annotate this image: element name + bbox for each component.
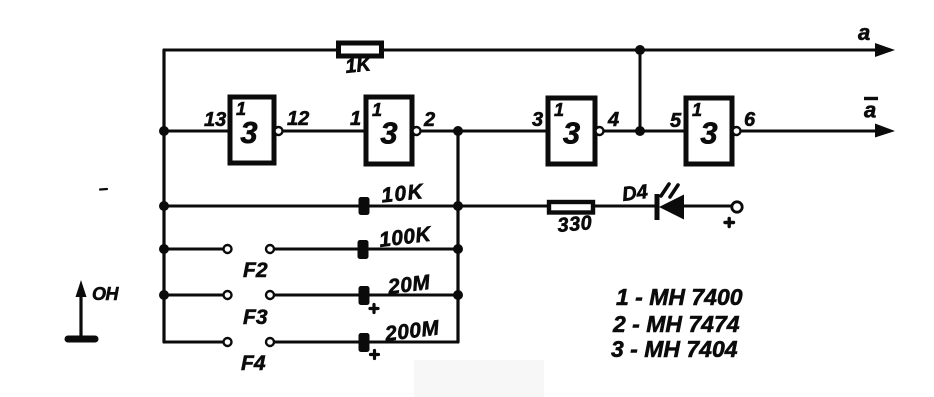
wire: left vertical bus bbox=[162, 50, 165, 342]
switch F4 bbox=[224, 338, 275, 375]
wire: vertical link from top line to gate chain bbox=[639, 50, 642, 131]
node: right bus / row 2 bbox=[453, 244, 463, 254]
svg-text:2: 2 bbox=[423, 109, 435, 131]
svg-text:5: 5 bbox=[670, 110, 682, 132]
svg-text:OH: OH bbox=[92, 284, 120, 304]
LED D4 bbox=[621, 181, 684, 220]
svg-text:F4: F4 bbox=[241, 352, 266, 375]
resistor 200M bbox=[359, 316, 441, 358]
switch F3 bbox=[224, 291, 275, 329]
node: left bus / row 1 bbox=[159, 201, 169, 211]
svg-text:1K: 1K bbox=[344, 53, 373, 78]
svg-text:3: 3 bbox=[700, 116, 717, 151]
node: left bus / row 2 bbox=[159, 244, 169, 254]
svg-text:12: 12 bbox=[287, 108, 309, 130]
inverter gate U3 (type 3, pins 3/4) bbox=[548, 98, 604, 164]
svg-text:1: 1 bbox=[350, 108, 361, 130]
svg-text:6: 6 bbox=[744, 109, 756, 131]
svg-text:4: 4 bbox=[607, 109, 619, 131]
inverter gate U1 (type 3, pins 13/12) bbox=[230, 97, 283, 163]
svg-text:2 - MH 7474: 2 - MH 7474 bbox=[612, 311, 740, 337]
node: right bus / row 1 bbox=[453, 201, 463, 211]
svg-text:330: 330 bbox=[557, 212, 594, 237]
node: junction right bus / gate chain bbox=[453, 126, 463, 136]
wire: main gate-chain line (net between inverters) bbox=[164, 130, 877, 133]
svg-text:3: 3 bbox=[380, 116, 397, 151]
wire: row 1 (10K row) bbox=[164, 205, 732, 208]
svg-text:3 - MH 7404: 3 - MH 7404 bbox=[611, 336, 738, 362]
node: right bus / row 3 bbox=[453, 290, 463, 300]
wire: right vertical bus bbox=[456, 131, 459, 342]
node: junction left bus / gate input bbox=[159, 126, 169, 136]
resistor R 330 bbox=[549, 202, 593, 237]
svg-text:3: 3 bbox=[240, 115, 257, 150]
wire: row 4 (200M row) bbox=[164, 341, 458, 344]
svg-text:3: 3 bbox=[532, 109, 543, 131]
terminal: + supply bbox=[725, 202, 742, 227]
arrow: output Q bbox=[875, 43, 895, 57]
net label Q-bar bbox=[864, 98, 878, 123]
resistor 10K bbox=[359, 180, 426, 215]
wire: top feedback line (net Q) bbox=[164, 49, 877, 52]
reference symbol OH (level marker) bbox=[68, 280, 120, 339]
resistor 100K bbox=[358, 223, 434, 259]
svg-text:10K: 10K bbox=[380, 180, 426, 207]
arrow: output Q-bar bbox=[875, 124, 895, 138]
svg-text:a: a bbox=[864, 98, 876, 123]
svg-text:a: a bbox=[858, 20, 870, 45]
resistor 20M bbox=[359, 271, 432, 313]
svg-text:1 - MH 7400: 1 - MH 7400 bbox=[616, 284, 743, 310]
node: junction mid wire / vertical link bbox=[635, 126, 645, 136]
svg-text:D4: D4 bbox=[621, 181, 649, 206]
wire: row 2 (100K row) bbox=[164, 248, 458, 251]
inverter gate U2 (type 3, pins 1/2) bbox=[366, 97, 421, 164]
svg-text:13: 13 bbox=[204, 109, 226, 131]
node: junction top wire / vertical link bbox=[635, 45, 645, 55]
inverter gate U4 (type 3, pins 5/6) bbox=[686, 98, 741, 164]
svg-text:F3: F3 bbox=[243, 306, 268, 329]
node: left bus / row 3 bbox=[159, 290, 169, 300]
svg-text:F2: F2 bbox=[243, 259, 268, 282]
switch F2 bbox=[224, 245, 275, 282]
wire: row 3 (20M row) bbox=[164, 294, 458, 297]
svg-text:3: 3 bbox=[563, 116, 580, 151]
resistor R 1K bbox=[339, 43, 382, 78]
